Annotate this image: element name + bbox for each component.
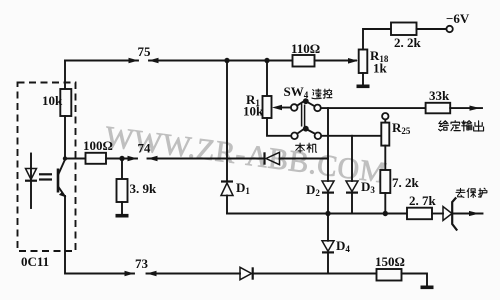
phototransistor (57, 169, 60, 193)
diode on wire 73 (cathode right) (240, 267, 252, 279)
svg-text:75: 75 (138, 44, 152, 59)
svg-text:−6V: −6V (446, 11, 470, 26)
wire: emitter down left rail (65, 196, 134, 274)
wire: local contact row (321, 135, 381, 137)
wire: 110ohm to R18 wiper (315, 60, 357, 62)
svg-text:7. 2k: 7. 2k (392, 175, 420, 190)
node collector junction (63, 156, 67, 160)
resistor 33k (426, 103, 451, 114)
LED of optocoupler (30, 154, 32, 209)
svg-text:10k: 10k (243, 104, 264, 119)
svg-text:1k: 1k (373, 61, 388, 76)
resistor 3.9k (121, 159, 123, 180)
wire: remote branch vertical to D2 (327, 108, 329, 181)
wire: R18 top to 2.2k (363, 29, 391, 50)
wire: R18 bottom to ground (362, 73, 364, 85)
resistor 100ohm (86, 153, 107, 164)
diode D4 (cathode down) (327, 214, 329, 241)
switch gang linkage (301, 103, 303, 127)
resistor 2.7k (407, 208, 432, 220)
label yaokong (remote) (312, 89, 332, 99)
zener to protection (432, 213, 443, 215)
wire: 100ohm to node 74 gap (106, 158, 137, 160)
wire: D1 branch vertical (226, 61, 228, 182)
junction dot top rail / D1 branch (224, 58, 229, 63)
svg-text:110Ω: 110Ω (291, 41, 320, 56)
svg-text:74: 74 (138, 141, 152, 156)
wire: 33k to output arrow (450, 107, 482, 109)
diode D3 (cathode down) (346, 181, 358, 192)
optocoupler dashed box (18, 83, 76, 252)
diode D1 (cathode up) (221, 180, 233, 182)
potentiometer R1 branch (266, 61, 268, 97)
coupling symbol = (39, 173, 52, 175)
arrow pair at node 73 (125, 271, 135, 276)
wire: node 74 right segment (148, 158, 265, 160)
wire: 2.2k to -6V terminal (417, 28, 447, 30)
svg-text:33k: 33k (429, 88, 450, 103)
arrow pair at node 74 (128, 156, 138, 161)
junction dot top rail / R1 branch (264, 58, 269, 63)
svg-text:2. 2k: 2. 2k (394, 35, 422, 50)
svg-text:2. 7k: 2. 7k (409, 193, 437, 208)
svg-text:10k: 10k (42, 93, 63, 108)
wire: 73 right segment (147, 273, 241, 275)
junction dot 3.9k tap (119, 156, 124, 161)
wire: top rail horizontal (node 75 line) (65, 60, 138, 62)
R1 wiper arrow to switch pole (272, 105, 282, 110)
svg-text:73: 73 (135, 256, 149, 271)
wire: summing rail y213 (227, 213, 407, 215)
resistor 150ohm (377, 269, 402, 281)
wire: remote contact to 33k (321, 107, 426, 109)
wiper arrow into R18 (348, 58, 358, 64)
svg-text:3. 9k: 3. 9k (130, 181, 158, 196)
wire: D3 branch vertical (351, 136, 353, 181)
diode on wire 74 (cathode left) (263, 152, 265, 164)
svg-text:100Ω: 100Ω (83, 138, 113, 153)
wire: left rail top (64, 61, 66, 90)
wire: 10k to collector node (64, 116, 66, 159)
ground (R18) (357, 85, 370, 89)
svg-text:150Ω: 150Ω (375, 254, 405, 269)
arrow pair at node 75 (129, 58, 139, 63)
label geiding shuchu (setpoint output) (439, 121, 484, 131)
ground (150ohm) (421, 285, 434, 289)
svg-text:0C11: 0C11 (21, 254, 49, 269)
terminal -6V (446, 26, 452, 32)
wire: collector to 100ohm (65, 158, 86, 160)
wire: R1 bottom to switch lower pole (267, 118, 291, 136)
potentiometer R25 (382, 113, 388, 119)
switch blade lower (297, 129, 303, 133)
potentiometer R18 1k (359, 50, 368, 74)
resistor 2.2k (391, 23, 417, 36)
resistor 10k (collector load) (60, 89, 71, 116)
label benji (local) (296, 143, 317, 152)
label qubaohu (to protection) (456, 188, 487, 197)
resistor 7.2k (380, 170, 390, 193)
wire: 150ohm to ground (402, 274, 428, 286)
switch blade upper (297, 101, 304, 105)
ground (3.9k) (116, 214, 129, 218)
resistor 110ohm (293, 55, 315, 67)
